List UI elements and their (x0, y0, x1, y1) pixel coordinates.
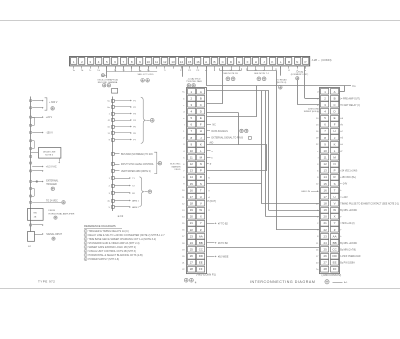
svg-text:F: F (334, 123, 336, 127)
svg-text:A: A (200, 90, 202, 94)
svg-text:J-800 (CONN P1): J-800 (CONN P1) (196, 274, 216, 277)
svg-text:CC: CC (333, 247, 337, 251)
shielded pair connectors (187, 84, 190, 87)
relay drop connector (279, 86, 283, 90)
group 3 brace (139, 177, 143, 207)
svg-text:Z: Z (334, 228, 336, 232)
svg-text:V: V (334, 201, 336, 205)
wire TB1-L down to P2 row 3 (297, 65, 299, 68)
svg-text:BB: BB (333, 241, 337, 245)
svg-text:+24 VDC (+24V): +24 VDC (+24V) (340, 171, 357, 173)
svg-text:DELAY LINE: DELAY LINE (43, 150, 56, 153)
middle column rail (112, 97, 114, 212)
svg-text:EXTERNAL SIGNAL TO PIN B: EXTERNAL SIGNAL TO PIN B (212, 137, 244, 140)
svg-text:TO 24 VDC: TO 24 VDC (46, 200, 58, 202)
svg-text:By P/N 1059A: By P/N 1059A (340, 262, 355, 265)
svg-text:J-4 (A) SHLD: J-4 (A) SHLD (187, 77, 200, 80)
rail jog 1 (31, 117, 34, 119)
svg-text:E: E (334, 116, 336, 120)
svg-text:27: 27 (323, 261, 327, 265)
svg-text:T: T (334, 188, 336, 192)
svg-text:+150 VDC (B+): +150 VDC (B+) (340, 177, 356, 179)
svg-text:16: 16 (323, 188, 327, 192)
svg-text:INTERCONNECTING DIAGRAM: INTERCONNECTING DIAGRAM (250, 280, 315, 284)
P1 row 24 arrow note (206, 242, 215, 244)
svg-text:RECORD CAMERA: RECORD CAMERA (98, 81, 118, 84)
svg-text:N: N (334, 162, 336, 166)
svg-text:14: 14 (190, 175, 194, 179)
P1 row 11 stub (206, 157, 211, 159)
aux line (32, 170, 42, 172)
rail jog 2 (31, 140, 34, 142)
delay box drop arrow (59, 158, 61, 161)
svg-text:15: 15 (190, 182, 194, 186)
middle column group 2 rows (112, 153, 115, 156)
+24VDC line (32, 117, 42, 119)
svg-text:SEE NOTE 7-1: SEE NOTE 7-1 (254, 73, 270, 75)
svg-text:E: E (200, 116, 202, 120)
svg-text:DATA SIGNALS: DATA SIGNALS (212, 130, 229, 133)
P1 row 26 arrow note (206, 256, 215, 258)
svg-text:HORIZONTAL AMPLIFIER: HORIZONTAL AMPLIFIER (49, 212, 75, 215)
svg-text:AA: AA (333, 234, 337, 238)
svg-text:⊕ C2: ⊕ C2 (118, 215, 124, 218)
svg-text:TRIGGER: TRIGGER (46, 184, 57, 186)
svg-text:C: C (200, 103, 202, 107)
wire bracket-C to P2 row 22 (276, 70, 278, 229)
J-800 P1 connectors (184, 278, 188, 282)
svg-text:Y: Y (334, 221, 336, 225)
svg-text:P: P (200, 169, 202, 173)
svg-text:19: 19 (190, 208, 194, 212)
svg-text:+6.3 V AC: +6.3 V AC (46, 166, 57, 169)
svg-text:25: 25 (190, 247, 194, 251)
svg-text:C: C (334, 103, 336, 107)
aux tap line (32, 224, 42, 226)
P1 row 10 stub (206, 150, 211, 152)
svg-text:AA: AA (199, 234, 203, 238)
svg-text:13: 13 (190, 169, 194, 173)
svg-text:X: X (200, 215, 202, 219)
svg-text:#10 WIDE: #10 WIDE (218, 257, 229, 259)
svg-text:+ 300 V: + 300 V (49, 101, 58, 104)
bracket C connectors (257, 77, 261, 81)
middle column group 3 rows (112, 177, 115, 180)
svg-text:V: V (200, 201, 202, 205)
svg-text:12: 12 (190, 162, 194, 166)
rail jog 3 (31, 188, 34, 190)
connector J-800 P2 (right block) (320, 88, 340, 274)
svg-text:R: R (200, 175, 202, 179)
svg-text:VISUAL UNIT CONTROL CKTS 2B (S: VISUAL UNIT CONTROL CKTS 2B (SHT 3) (88, 250, 136, 253)
svg-text:E: E (238, 60, 240, 64)
svg-text:MARKER: MARKER (172, 165, 181, 168)
svg-text:B: B (200, 96, 202, 100)
svg-text:A SECOND: A SECOND (308, 108, 319, 111)
group bracket C (247, 68, 276, 70)
wire Fo line (206, 85, 351, 87)
P1 row 6 stub NC (206, 124, 211, 126)
svg-text:15: 15 (323, 182, 327, 186)
-150VDC line (32, 132, 42, 134)
svg-text:F: F (247, 60, 249, 64)
svg-text:20: 20 (190, 215, 194, 219)
svg-text:SIGNAL INPUT: SIGNAL INPUT (46, 233, 62, 236)
signal input line (35, 234, 43, 236)
svg-text:S: S (334, 182, 336, 186)
svg-text:FF: FF (199, 267, 203, 271)
svg-text:BUS BAR (NO BREAK) TO 24V: BUS BAR (NO BREAK) TO 24V (121, 153, 153, 156)
svg-text:24: 24 (323, 241, 327, 245)
group A ticks (115, 66, 117, 72)
svg-text:= +24V: = +24V (340, 197, 348, 199)
svg-text:B: B (334, 96, 336, 100)
faint bottom rule (0, 288, 400, 290)
left rail bus (30, 97, 32, 232)
svg-text:By MIN (2+7/8): By MIN (2+7/8) (340, 249, 356, 251)
P1 row 21 arrow note (206, 223, 215, 225)
svg-text:TYPE 972: TYPE 972 (38, 280, 55, 284)
TB1 terminal ticks (73, 66, 75, 69)
oscillograph tap symbol (105, 75, 107, 77)
svg-text:= -24V: = -24V (340, 184, 347, 186)
svg-text:12: 12 (323, 162, 327, 166)
svg-text:26: 26 (323, 254, 327, 258)
svg-text:19: 19 (323, 208, 327, 212)
svg-text:EXTERNAL: EXTERNAL (46, 180, 59, 183)
jumper loop P1 rows 9-13 (206, 144, 267, 146)
faint top rule (0, 20, 400, 22)
svg-text:+24 V: +24 V (46, 116, 53, 119)
svg-text:(FORMERLY CKT): (FORMERLY CKT) (291, 74, 309, 76)
svg-text:CC: CC (199, 247, 203, 251)
group 2 bracket (154, 152, 157, 173)
svg-text:(= PRE-AMP OUT): (= PRE-AMP OUT) (340, 97, 360, 100)
svg-text:SEE J-27 1-28.5: SEE J-27 1-28.5 (137, 74, 154, 76)
bracket B connectors (226, 77, 230, 81)
svg-text:28: 28 (323, 267, 327, 271)
svg-text:SEE NOTE 1B: SEE NOTE 1B (223, 73, 238, 75)
svg-text:21: 21 (190, 221, 194, 225)
svg-text:H: H (255, 60, 257, 64)
terminal strip TB1 cells (71, 58, 77, 65)
svg-text:#7 TO B2: #7 TO B2 (218, 223, 228, 225)
connector J-800 P1 (center block) (187, 88, 207, 274)
svg-text:K: K (271, 60, 273, 64)
svg-text:TO RELAY: TO RELAY (276, 78, 287, 81)
bracket A connectors (141, 79, 145, 83)
svg-text:U: U (334, 195, 336, 199)
svg-text:TIME BASE GEN & SWEEP CHARGING: TIME BASE GEN & SWEEP CHARGING CKT 1-A (… (88, 238, 156, 241)
svg-text:P: P (334, 169, 336, 173)
svg-text:SWEEP GATE EXPAND LOGIC 1B (SH: SWEEP GATE EXPAND LOGIC 1B (SHT 2) (88, 246, 136, 249)
svg-text:16: 16 (190, 188, 194, 192)
svg-text:P: P (305, 60, 307, 64)
group bracket B (220, 68, 242, 70)
to 24VDC line (32, 202, 61, 204)
svg-text:13: 13 (323, 169, 327, 173)
delay network box (39, 148, 61, 159)
+6.3V line (32, 166, 42, 168)
svg-text:REFERENCE DIAGRAMS: REFERENCE DIAGRAMS (84, 224, 116, 228)
svg-text:22: 22 (190, 228, 194, 232)
svg-text:+f: +f (340, 151, 342, 153)
wire TB1-D down to P1 row 3 (222, 66, 224, 104)
svg-text:FIELD: FIELD (175, 169, 181, 171)
svg-text:27: 27 (190, 261, 194, 265)
left rail terminals (29, 99, 31, 101)
svg-text:DD: DD (199, 254, 203, 258)
svg-text:10: 10 (147, 60, 151, 64)
svg-text:K: K (334, 142, 336, 146)
svg-text:A: A (205, 60, 207, 64)
svg-text:STANDARD GAIN & VIDEO AMP 2A (: STANDARD GAIN & VIDEO AMP 2A (SHT 2-4) (88, 242, 139, 245)
svg-text:HORIZONTAL & SELECT BLANKING C: HORIZONTAL & SELECT BLANKING CKTS (2-B) (88, 254, 142, 257)
svg-text:17: 17 (323, 195, 327, 199)
wire TB1-L down to P2 row 2 (304, 66, 306, 99)
svg-text:ELECTRIC: ELECTRIC (170, 164, 181, 166)
svg-text:FF: FF (333, 267, 337, 271)
svg-text:FROM: FROM (49, 210, 56, 212)
middle column top box (112, 89, 118, 94)
wire P1 row 15 to P2 row 18 (206, 183, 261, 185)
relay drop wire (280, 66, 282, 76)
svg-text:POWER SUPPLY (SHT 2-6): POWER SUPPLY (SHT 2-6) (88, 258, 119, 261)
svg-text:J-28 ← (CONN): J-28 ← (CONN) (312, 58, 332, 62)
svg-text:W: W (333, 208, 336, 212)
collector line boxes 5-10 (107, 71, 157, 73)
svg-text:ARM 1: ARM 1 (132, 200, 139, 203)
notes list (84, 230, 87, 233)
svg-text:28: 28 (190, 267, 194, 271)
wire P1 row 1 to P2 row 20 (265, 91, 267, 217)
svg-text:11: 11 (190, 155, 193, 159)
svg-text:A: A (334, 90, 336, 94)
svg-text:1-P2/3 OVERLOAD: 1-P2/3 OVERLOAD (340, 255, 361, 258)
svg-text:By MIN +24VDC: By MIN +24VDC (340, 210, 357, 212)
wire P1 row 4 stub (206, 112, 238, 114)
svg-text:B: B (213, 60, 215, 64)
svg-text:TWISTED PAIR: TWISTED PAIR (186, 80, 202, 83)
svg-text:K: K (200, 142, 202, 146)
svg-text:J-28 (A): J-28 (A) (296, 71, 304, 74)
svg-text:10: 10 (190, 149, 194, 153)
wire TB1-A drop (206, 66, 208, 86)
svg-text:D: D (200, 109, 202, 113)
P1 row 8 external signal (206, 137, 210, 139)
svg-text:NC: NC (213, 125, 217, 127)
P1 row 7 data signals (206, 130, 210, 132)
wire Fo to P2 row 1 (344, 86, 346, 92)
wire P1 row 25 to P2 row 25 (206, 247, 320, 249)
svg-text:21: 21 (323, 221, 327, 225)
oscillograph drop wire (106, 66, 108, 78)
group 1 brace (141, 97, 146, 143)
svg-text:TRIGGER & TIMING DELAYS 1A (C): TRIGGER & TIMING DELAYS 1A (C) (88, 230, 128, 233)
svg-text:26: 26 (190, 254, 194, 258)
svg-text:F: F (200, 123, 202, 127)
svg-text:U: U (200, 195, 202, 199)
svg-text:A/D: A/D (210, 142, 214, 145)
svg-text:Y: Y (200, 221, 202, 225)
P1 row 12 arrow (206, 163, 209, 165)
svg-text:EE: EE (333, 261, 337, 265)
wire P1 row 1 to P2 row 19 (206, 90, 269, 92)
svg-text:S: S (200, 182, 202, 186)
svg-text:12: 12 (163, 60, 167, 64)
svg-text:= MIN +24 (2): = MIN +24 (2) (340, 223, 354, 225)
svg-text:11: 11 (324, 155, 327, 159)
svg-text:DD: DD (333, 254, 337, 258)
svg-text:HELD IN: HELD IN (301, 191, 310, 193)
svg-text:(J-800 CONN P2): (J-800 CONN P2) (322, 274, 342, 277)
svg-text:BB: BB (199, 241, 203, 245)
svg-text:EE: EE (199, 261, 203, 265)
svg-text:VERT WIPER ARM (NOTE 3): VERT WIPER ARM (NOTE 3) (121, 170, 151, 173)
svg-text:H: H (200, 129, 202, 133)
svg-text:23: 23 (323, 234, 327, 238)
svg-text:SWEEP (HOLD): SWEEP (HOLD) (304, 111, 320, 113)
svg-text:T: T (200, 188, 202, 192)
svg-text:11: 11 (155, 60, 158, 64)
svg-text:20: 20 (323, 215, 327, 219)
external trigger line (32, 181, 42, 183)
svg-text:NOTE 5: NOTE 5 (45, 155, 54, 157)
terminal strip TB1 outline (70, 57, 310, 66)
wire corner to P1 row 5 (256, 86, 258, 117)
svg-text:25: 25 (323, 247, 327, 251)
svg-text:N: N (296, 60, 298, 64)
svg-text:10: 10 (323, 149, 327, 153)
oscillograph connector circles (103, 84, 106, 87)
svg-text:16: 16 (196, 60, 200, 64)
svg-text:Z: Z (200, 228, 202, 232)
svg-text:17: 17 (190, 195, 194, 199)
svg-text:INPUT SYNC LEVEL CONTROL: INPUT SYNC LEVEL CONTROL (121, 164, 155, 166)
svg-text:13: 13 (171, 60, 175, 64)
svg-text:-150 V: -150 V (46, 132, 53, 135)
svg-text:14: 14 (180, 60, 184, 64)
svg-text:D: D (334, 109, 336, 113)
svg-text:W: W (199, 208, 202, 212)
svg-text:24: 24 (190, 241, 194, 245)
svg-text:H: H (334, 129, 336, 133)
svg-text:DELAY LINE & SIG TO +24VDC CON: DELAY LINE & SIG TO +24VDC CONVERTER (NO… (88, 234, 165, 237)
svg-text:R: R (334, 175, 336, 179)
svg-text:23: 23 (190, 234, 194, 238)
svg-text:(NOTE 4): (NOTE 4) (277, 82, 287, 84)
center block top feed from TB1 pin 15 (182, 66, 184, 77)
lower left stub box (28, 232, 35, 242)
svg-text:#9 TO B2: #9 TO B2 (218, 243, 228, 245)
svg-text:SW: SW (33, 212, 36, 214)
svg-text:P (OUT): P (OUT) (208, 201, 217, 203)
+300V arrows into bracket (32, 100, 42, 102)
svg-text:ARM 2: ARM 2 (132, 206, 139, 209)
svg-text:By MIN +24VDC: By MIN +24VDC (340, 243, 357, 245)
svg-text:TIMING PULSE TO EXHIBIT CONTAC: TIMING PULSE TO EXHIBIT CONTACT (SEE NOT… (340, 202, 399, 205)
horizontal amplifier box (28, 209, 44, 221)
svg-text:14: 14 (323, 175, 327, 179)
svg-text:X: X (334, 215, 336, 219)
svg-text:N: N (200, 162, 202, 166)
svg-text:18: 18 (323, 201, 327, 205)
svg-text:15: 15 (188, 60, 192, 64)
middle column group 1 rows (112, 100, 115, 103)
svg-text:22: 22 (323, 228, 327, 232)
svg-text:18: 18 (190, 201, 194, 205)
svg-text:TO ANT RELAY (=): TO ANT RELAY (=) (340, 104, 360, 107)
